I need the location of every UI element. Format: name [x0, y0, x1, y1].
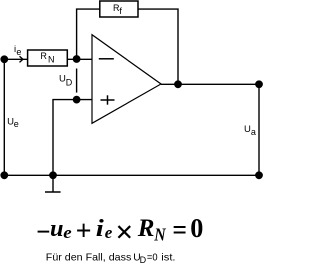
svg-text:−: −	[36, 217, 50, 248]
svg-text:N: N	[153, 225, 166, 245]
svg-text:N: N	[48, 55, 55, 65]
node: output terminal right	[255, 80, 263, 88]
label RN	[40, 51, 54, 64]
label Ue	[7, 116, 19, 129]
wire: RN to inverting input	[67, 58, 92, 60]
wire: Rf to output node (top right, down)	[138, 9, 178, 84]
wire: input node to resistor RN	[4, 58, 27, 60]
svg-text:=0: =0	[147, 253, 158, 264]
wire: feedback riser from junction up to Rf	[77, 9, 100, 59]
wire: output to right terminal	[178, 83, 259, 85]
node: noninverting input junction	[73, 96, 81, 104]
svg-text:R: R	[40, 51, 47, 61]
svg-text:=: =	[172, 215, 187, 246]
resistor RN	[28, 50, 68, 66]
wire: bottom rail	[4, 174, 259, 176]
voltage arrow UD between inputs	[76, 69, 78, 93]
op-amp noninverting input plus sign	[101, 95, 115, 104]
svg-text:i: i	[96, 216, 104, 242]
svg-text:e: e	[105, 223, 113, 242]
label i_e	[14, 44, 21, 57]
node: bottom left	[0, 171, 8, 179]
wire: left input rail (Ue)	[3, 59, 5, 175]
ground	[45, 175, 61, 192]
label Rf	[113, 3, 122, 16]
op-amp U1	[92, 35, 161, 124]
resistor Rf	[100, 1, 138, 17]
svg-text:D: D	[140, 255, 147, 265]
svg-text:a: a	[251, 127, 256, 137]
node: input terminal left	[0, 55, 8, 63]
node: output junction	[174, 80, 182, 88]
label UD	[59, 74, 73, 88]
svg-text:+: +	[76, 216, 92, 247]
svg-text:R: R	[137, 215, 155, 242]
svg-text:Für den Fall, dass: Für den Fall, dass	[46, 253, 132, 264]
svg-text:×: ×	[115, 214, 133, 250]
svg-text:D: D	[66, 78, 73, 88]
equation	[36, 212, 203, 250]
svg-text:0: 0	[190, 212, 203, 243]
svg-text:f: f	[119, 6, 122, 16]
svg-text:e: e	[63, 223, 72, 242]
wire: right rail (Ua)	[258, 84, 260, 175]
svg-text:e: e	[16, 47, 21, 57]
op-amp inverting input minus sign	[99, 58, 114, 60]
wire: op-amp output	[161, 83, 178, 85]
svg-text:e: e	[14, 119, 19, 129]
node: ground junction	[49, 171, 57, 179]
node: bottom right	[255, 171, 263, 179]
wire: noninverting input to ground rail	[53, 100, 92, 176]
current arrow i_e	[20, 56, 23, 62]
svg-text:ist.: ist.	[161, 253, 175, 264]
caption	[46, 253, 176, 266]
node: inverting input junction	[73, 55, 81, 63]
label Ua	[244, 124, 256, 137]
svg-text:u: u	[50, 216, 64, 242]
